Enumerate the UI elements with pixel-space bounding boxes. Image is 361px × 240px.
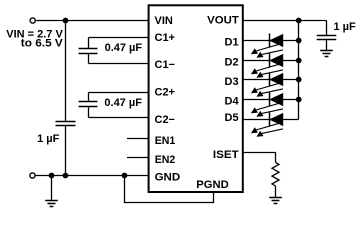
svg-text:D2: D2	[225, 56, 239, 68]
svg-text:VIN: VIN	[155, 15, 173, 27]
svg-text:C1+: C1+	[155, 32, 176, 44]
svg-text:VOUT: VOUT	[207, 14, 239, 26]
svg-text:C2−: C2−	[155, 114, 176, 126]
svg-text:0.47 µF: 0.47 µF	[105, 42, 143, 54]
svg-text:D4: D4	[225, 96, 240, 108]
svg-text:D3: D3	[225, 76, 239, 88]
svg-text:0.47 µF: 0.47 µF	[104, 97, 142, 109]
svg-text:GND: GND	[155, 172, 181, 184]
svg-text:EN1: EN1	[155, 135, 176, 147]
svg-text:D1: D1	[225, 37, 239, 49]
svg-text:PGND: PGND	[196, 179, 229, 191]
svg-text:1 µF: 1 µF	[334, 21, 357, 33]
svg-text:C1−: C1−	[155, 59, 176, 71]
svg-text:EN2: EN2	[155, 154, 176, 166]
svg-text:ISET: ISET	[213, 149, 239, 161]
svg-text:C2+: C2+	[155, 87, 176, 99]
svg-text:1 µF: 1 µF	[37, 133, 60, 145]
svg-text:D5: D5	[225, 112, 239, 124]
svg-text:to 6.5 V: to 6.5 V	[21, 38, 64, 50]
